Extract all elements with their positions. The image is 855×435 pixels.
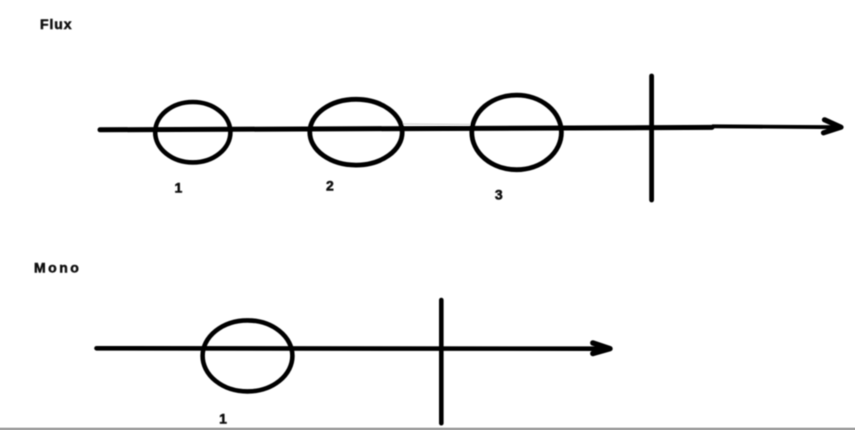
node 2 ellipse (flux)	[310, 99, 402, 165]
svg-text:2: 2	[326, 178, 334, 194]
svg-text:3: 3	[495, 187, 503, 203]
svg-text:1: 1	[219, 411, 227, 427]
node 1 ellipse (flux)	[155, 102, 230, 162]
wire: flux axis main segment	[100, 127, 712, 129]
wire: flux axis thin right segment	[712, 124, 837, 129]
bottom border line	[0, 428, 855, 430]
arrowhead: flux axis	[824, 120, 842, 133]
wire: mono axis	[97, 346, 602, 351]
node 1 ellipse (mono)	[203, 320, 293, 391]
svg-text:1: 1	[175, 179, 183, 195]
svg-text:Mono: Mono	[34, 259, 81, 275]
barrier line (flux)	[649, 76, 654, 200]
barrier line (mono)	[439, 300, 444, 423]
faint stroke overlap artifact	[402, 123, 470, 125]
node 3 ellipse (flux)	[472, 95, 562, 170]
svg-text:Flux: Flux	[40, 16, 72, 32]
arrowhead: mono axis	[593, 343, 610, 354]
